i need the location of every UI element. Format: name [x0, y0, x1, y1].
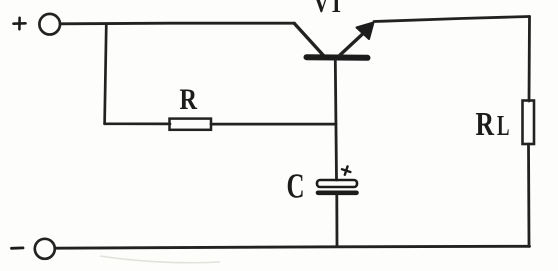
wire base lead vertical: [335, 60, 336, 180]
terminal minus label: [12, 246, 24, 249]
wire top right: [374, 17, 530, 22]
transistor VT collector diagonal: [295, 24, 324, 56]
wire right vertical lower: [527, 144, 530, 246]
positive terminal: [39, 14, 60, 35]
wire left vertical drop: [105, 24, 107, 124]
wire right vertical upper: [528, 17, 531, 102]
faint scan artifact: [100, 256, 220, 263]
svg-text:VT: VT: [314, 0, 344, 18]
capacitor C top plate: [317, 180, 357, 187]
wire top left: [60, 22, 294, 25]
svg-text:R: R: [180, 83, 198, 116]
wire bottom: [56, 246, 530, 248]
terminal plus label: [14, 18, 26, 29]
wire to resistor R: [105, 122, 170, 125]
svg-text:R: R: [476, 106, 495, 143]
resistor R: [170, 119, 212, 130]
resistor RL: [523, 101, 535, 145]
wire capacitor to bottom: [335, 196, 338, 246]
wire resistor to base node: [211, 123, 336, 126]
negative terminal: [35, 239, 55, 259]
svg-text:C: C: [287, 167, 305, 206]
capacitor C bottom plate: [318, 191, 357, 196]
transistor VT base bar: [307, 54, 368, 61]
transistor VT emitter with arrow: [340, 23, 374, 56]
capacitor C plus marker: [341, 165, 352, 176]
svg-text:L: L: [497, 110, 510, 142]
